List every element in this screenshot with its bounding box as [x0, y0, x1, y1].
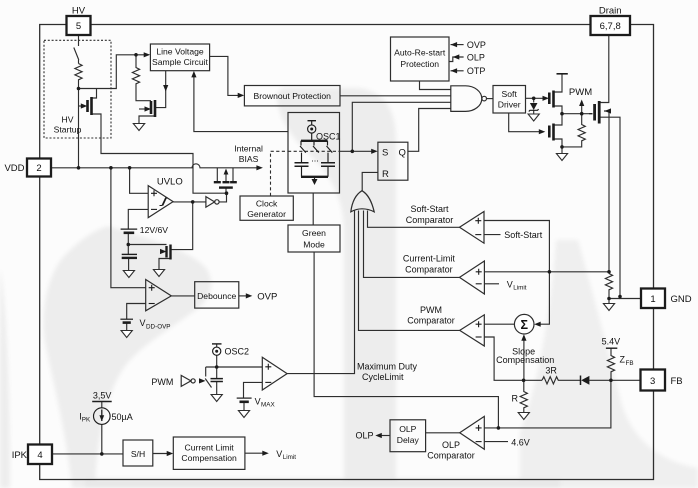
- svg-text:Limit: Limit: [513, 285, 527, 292]
- svg-text:Compensation: Compensation: [181, 453, 237, 463]
- svg-text:Startup: Startup: [54, 125, 82, 135]
- svg-text:Clock: Clock: [256, 199, 278, 209]
- svg-text:PK: PK: [82, 417, 91, 424]
- svg-text:Q: Q: [399, 148, 406, 159]
- svg-text:Driver: Driver: [498, 100, 521, 110]
- svg-text:OTP: OTP: [467, 66, 486, 76]
- svg-text:UVLO: UVLO: [157, 176, 183, 187]
- svg-text:FB: FB: [671, 376, 683, 387]
- svg-text:GND: GND: [671, 294, 692, 305]
- svg-text:PWM: PWM: [420, 305, 442, 315]
- svg-text:OLP: OLP: [442, 440, 460, 450]
- svg-text:BIAS: BIAS: [239, 154, 259, 164]
- svg-text:Limit: Limit: [283, 454, 297, 461]
- svg-text:50µA: 50µA: [112, 412, 133, 422]
- svg-text:CycleLimit: CycleLimit: [362, 372, 404, 382]
- svg-text:HV: HV: [72, 6, 86, 17]
- svg-text:Σ: Σ: [520, 318, 528, 332]
- svg-text:V: V: [276, 449, 282, 459]
- svg-text:Soft-Start: Soft-Start: [504, 230, 543, 240]
- svg-text:3R: 3R: [545, 365, 557, 375]
- svg-text:V: V: [255, 396, 261, 406]
- svg-text:Delay: Delay: [397, 435, 420, 445]
- svg-text:Soft: Soft: [502, 89, 518, 99]
- svg-text:4: 4: [37, 450, 42, 461]
- svg-text:OVP: OVP: [257, 292, 277, 303]
- svg-text:Comparator: Comparator: [407, 316, 455, 326]
- svg-text:Internal: Internal: [234, 144, 263, 154]
- svg-text:Protection: Protection: [400, 59, 439, 69]
- svg-text:Sample Circuit: Sample Circuit: [152, 57, 208, 67]
- svg-text:DD-OVP: DD-OVP: [146, 324, 171, 331]
- svg-text:OVP: OVP: [467, 40, 486, 50]
- svg-text:12V/6V: 12V/6V: [140, 225, 168, 235]
- svg-text:4.6V: 4.6V: [511, 437, 530, 447]
- svg-text:Comparator: Comparator: [406, 215, 454, 225]
- svg-text:3,5V: 3,5V: [93, 391, 112, 401]
- svg-text:OLP: OLP: [356, 431, 374, 441]
- svg-text:Debounce: Debounce: [197, 291, 236, 301]
- svg-text:5: 5: [76, 21, 81, 32]
- svg-text:Brownout Protection: Brownout Protection: [254, 91, 332, 101]
- svg-text:Mode: Mode: [303, 240, 325, 250]
- svg-text:OSC2: OSC2: [225, 347, 250, 357]
- svg-text:S: S: [382, 148, 388, 159]
- svg-text:V: V: [507, 279, 513, 289]
- svg-text:5.4V: 5.4V: [602, 336, 621, 346]
- svg-text:Drain: Drain: [599, 6, 622, 17]
- svg-text:Green: Green: [302, 228, 326, 238]
- svg-text:FB: FB: [626, 360, 634, 367]
- svg-text:Comparator: Comparator: [427, 450, 475, 460]
- svg-text:IPK: IPK: [12, 450, 28, 461]
- svg-text:Soft-Start: Soft-Start: [410, 204, 449, 214]
- svg-text:PWM: PWM: [151, 377, 173, 387]
- svg-text:HV: HV: [62, 115, 74, 125]
- svg-text:V: V: [140, 318, 146, 328]
- svg-text:S/H: S/H: [131, 449, 145, 459]
- svg-text:Compensation: Compensation: [496, 355, 554, 365]
- svg-text:1: 1: [650, 294, 655, 305]
- svg-text:PWM: PWM: [569, 87, 592, 98]
- svg-text:Generator: Generator: [247, 209, 286, 219]
- svg-text:Line Voltage: Line Voltage: [156, 47, 204, 57]
- svg-text:MAX: MAX: [261, 402, 275, 409]
- svg-text:R: R: [512, 393, 519, 403]
- svg-text:OLP: OLP: [399, 424, 416, 434]
- svg-text:Current Limit: Current Limit: [185, 443, 235, 453]
- svg-text:6,7,8: 6,7,8: [600, 21, 621, 32]
- svg-text:VDD: VDD: [4, 163, 24, 174]
- svg-text:2: 2: [36, 163, 41, 174]
- svg-text:3: 3: [650, 376, 655, 387]
- svg-text:R: R: [382, 169, 389, 180]
- svg-text:Comparator: Comparator: [405, 264, 453, 274]
- svg-text:Auto-Re-start: Auto-Re-start: [394, 48, 446, 58]
- svg-text:OLP: OLP: [467, 52, 485, 62]
- svg-text:...: ...: [311, 154, 319, 164]
- svg-text:Maximum Duty: Maximum Duty: [357, 362, 418, 372]
- svg-text:OSC1: OSC1: [316, 132, 341, 142]
- svg-text:Current-Limit: Current-Limit: [403, 254, 456, 264]
